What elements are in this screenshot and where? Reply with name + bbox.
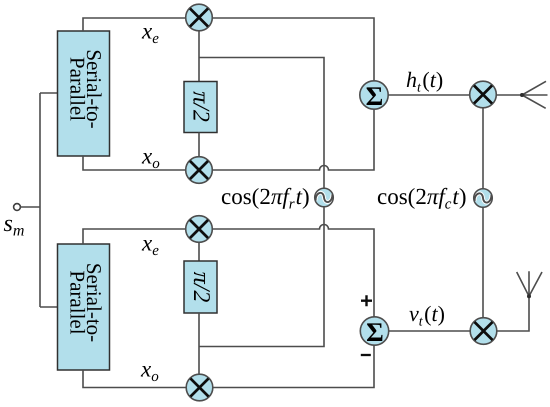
- serial-to-parallel block U1 (top): [58, 31, 110, 156]
- antenna A2 (vertical): [517, 271, 542, 298]
- wire: G2 to multiplier M6 carrier: [482, 207, 484, 317]
- wire: M2 output to summer S1 bottom (hop over oscillator line): [212, 109, 374, 170]
- wire: U1 odd output to multiplier M2: [83, 156, 186, 170]
- wire: G1 down to bottom branch carrier node: [199, 207, 324, 347]
- wire: M5 output to summer S2 minus input: [213, 345, 374, 387]
- wire: terminal to input bus: [21, 206, 41, 208]
- multiplier M3: [470, 81, 497, 108]
- svg-text:Σ: Σ: [366, 81, 384, 111]
- wire: bus to top serial-to-parallel input: [40, 92, 57, 94]
- wire: M1 output to summer S1 top: [212, 18, 374, 81]
- svg-text:Serial-to-Parallel: Serial-to-Parallel: [66, 49, 107, 128]
- wire: M4 output to summer S2 plus input (hop over oscillator line): [212, 225, 374, 318]
- wire: U1 even output to multiplier M1: [83, 18, 186, 31]
- wire: M3 carrier input from oscillator G2: [482, 108, 484, 189]
- svg-text:cos(2πfrt): cos(2πfrt): [221, 184, 310, 213]
- multiplier M1: [186, 4, 213, 31]
- svg-text:π/2: π/2: [188, 272, 214, 303]
- svg-text:Serial-to-Parallel: Serial-to-Parallel: [66, 263, 107, 342]
- wire: M4 carrier input down to phase shifter P2: [198, 242, 200, 261]
- antenna A1 (horizontal): [520, 81, 548, 108]
- wire: S2 output to multiplier M6: [389, 330, 471, 332]
- svg-text:vt(t): vt(t): [409, 301, 445, 330]
- wire: P2 to multiplier M5 with carrier tee: [198, 313, 200, 374]
- multiplier M6: [470, 318, 497, 345]
- svg-text:π/2: π/2: [188, 91, 214, 122]
- wire: input bus vertical: [39, 93, 41, 307]
- wire: P1 output to multiplier M2: [198, 133, 200, 157]
- wire: U2 odd output to multiplier M5: [83, 370, 186, 388]
- svg-text:Σ: Σ: [366, 317, 384, 347]
- summer S1: [360, 81, 388, 111]
- wire: U2 even output to multiplier M4: [83, 229, 186, 244]
- svg-text:cos(2πfct): cos(2πfct): [377, 184, 466, 213]
- wire: bus to bottom serial-to-parallel input: [40, 306, 57, 308]
- phase shifter P2 (pi/2, bottom): [184, 261, 217, 313]
- oscillator G2 (carrier f_c): [474, 189, 493, 208]
- phase shifter P1 (pi/2, top): [184, 82, 217, 133]
- serial-to-parallel block U2 (bottom): [58, 244, 110, 370]
- multiplier M4: [186, 216, 213, 243]
- multiplier M5: [186, 374, 213, 401]
- minus sign at S2: [361, 354, 371, 356]
- wire: oscillator G1 feed to carrier node: [199, 58, 324, 189]
- input terminal s_m: [14, 204, 21, 211]
- wire: M6 output to antenna A2: [497, 296, 529, 331]
- oscillator G1 (subcarrier f_r): [315, 188, 334, 207]
- multiplier M2: [186, 157, 213, 184]
- summer S2: [360, 317, 388, 347]
- wire: M1 carrier input down to phase shifter P1: [198, 31, 200, 82]
- plus sign at S2: [361, 295, 372, 306]
- wire: S1 output to multiplier M3: [388, 94, 470, 96]
- wire: M3 output to antenna A1: [496, 94, 522, 96]
- svg-text:ht(t): ht(t): [406, 67, 443, 96]
